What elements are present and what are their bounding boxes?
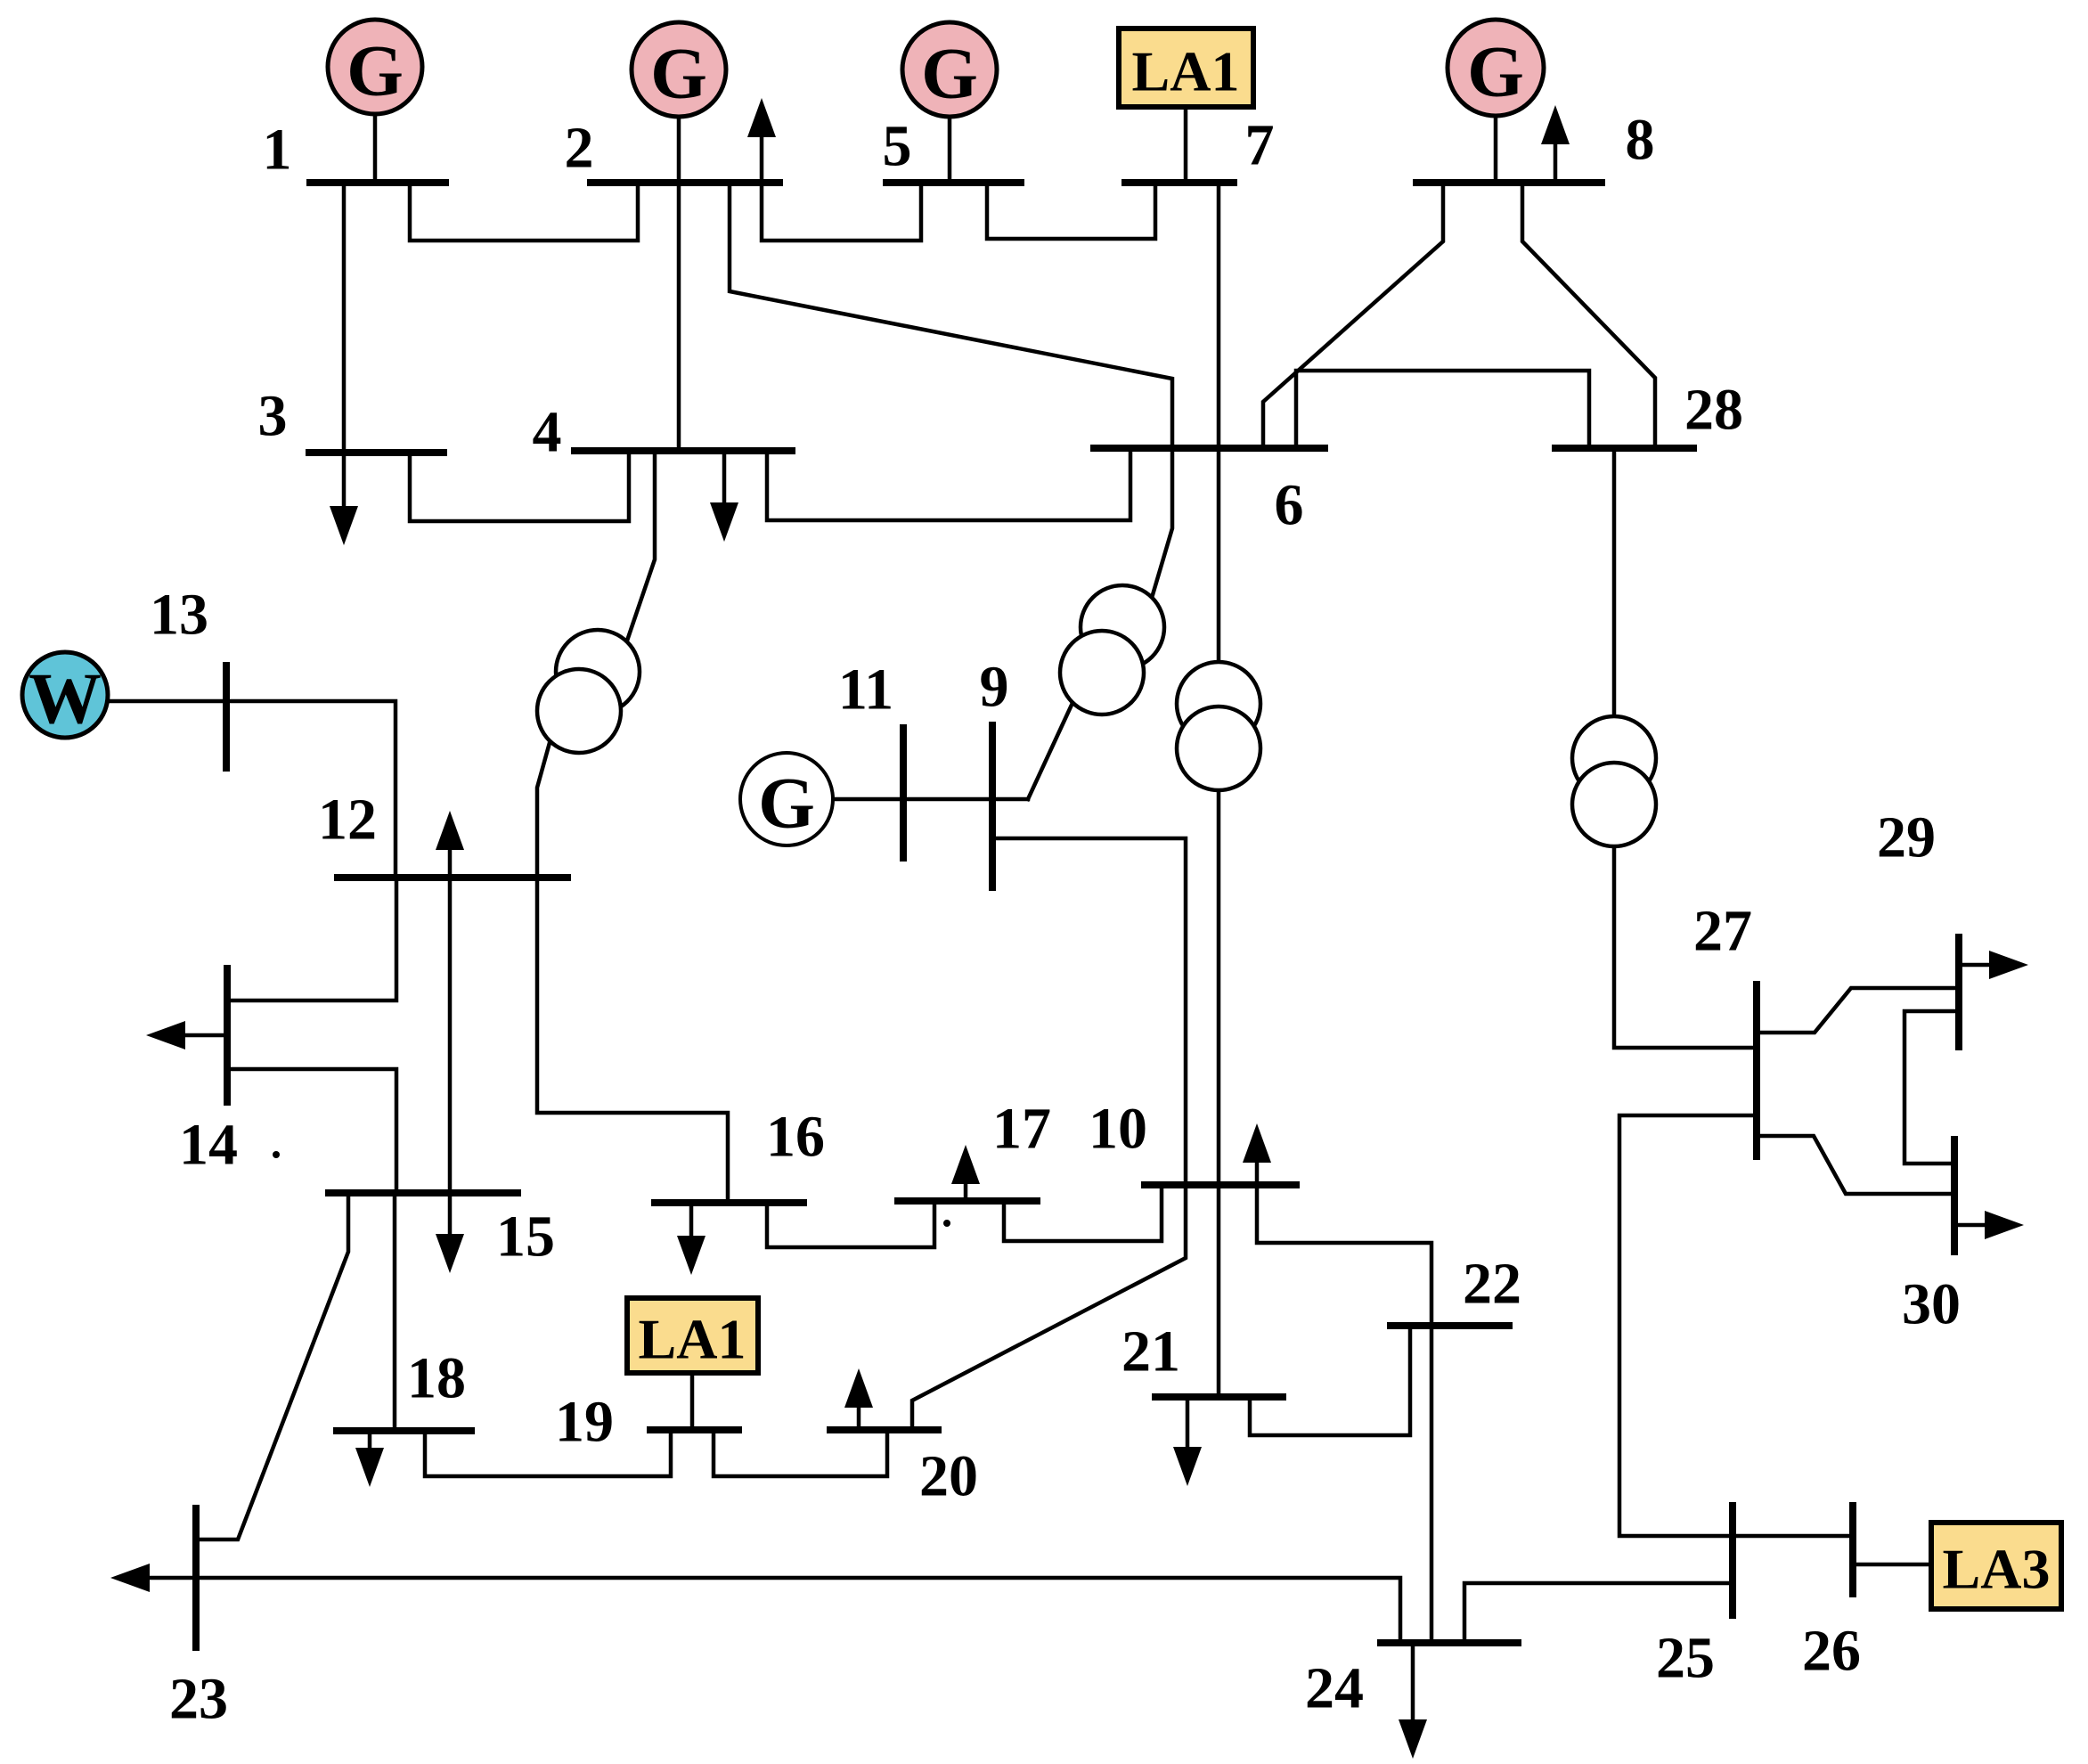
bus 23 [192,1508,200,1647]
wire generator lead G11-bus11-bus9 [832,797,1028,802]
load arrowhead bus16 down [677,1236,706,1275]
svg-text:29: 29 [1877,805,1936,870]
bus 16 [655,1199,803,1206]
wire line 14-15 [227,1069,396,1193]
wire line 6-T1b diagonal [1152,448,1172,598]
bus 17 [898,1197,1037,1205]
stray dot near bus17 [943,1220,950,1227]
wire line 4-T1 upper [626,451,655,643]
svg-text:LA1: LA1 [639,1308,746,1371]
wire line 22-24 [1430,1326,1434,1643]
wire line 9-T2 diagonal [1028,703,1073,799]
wire load line bus12-bus15 double arrow [448,849,453,1235]
svg-text:26: 26 [1802,1619,1861,1684]
wire line 26-LA3 [1853,1563,1931,1567]
svg-text:3: 3 [258,384,288,449]
load arrowhead bus8 up [1541,105,1570,144]
load arrowhead bus23 left [110,1564,150,1592]
wire connector LA1top-bus7 [1184,107,1188,183]
svg-text:11: 11 [838,657,893,723]
svg-text:G: G [758,763,815,844]
wire line 1-3 with load shaft at bus3 [342,183,347,504]
bus 3 [309,449,444,456]
wire load shaft bus4 [722,451,727,503]
load arrowhead bus14 left [146,1021,185,1049]
svg-text:10: 10 [1089,1097,1147,1162]
wire line 6-28 [1296,371,1589,448]
bus 30 [1951,1139,1958,1252]
load arrowhead bus20 up [844,1368,873,1408]
wire load shaft bus17 [964,1183,968,1201]
wire line 24-25 [1464,1583,1733,1643]
bus 15 [329,1189,518,1196]
svg-text:24: 24 [1305,1656,1364,1721]
load arrowhead bus24 down [1399,1719,1427,1759]
transformer T2 6-10 [1177,662,1260,790]
svg-text:5: 5 [883,114,912,179]
svg-text:28: 28 [1684,378,1743,443]
load arrowhead bus10 up [1243,1123,1271,1163]
svg-text:16: 16 [766,1105,825,1170]
wire line 8-28 [1522,183,1655,448]
wire generator lead G8-bus8 [1494,115,1498,183]
wire line T3-27 [1614,846,1757,1048]
bus 11 [900,728,907,858]
svg-text:22: 22 [1463,1252,1521,1317]
wire line 12-14 upper [227,878,396,1000]
svg-text:LA1: LA1 [1132,40,1240,103]
wire line 16-17 [767,1201,934,1247]
wire line 27-25 [1619,1115,1757,1536]
svg-text:6: 6 [1275,473,1304,538]
wire connector LA1mid-bus19 [690,1373,695,1430]
bus 29 [1955,937,1962,1047]
bus 13 [223,666,230,768]
svg-text:12: 12 [318,788,377,853]
wire line 1-2 [410,183,638,241]
wire line 2-5 with load shaft at bus2 [762,135,921,241]
wire load shaft bus16 [689,1203,694,1237]
bus 25 [1729,1506,1736,1615]
bus 19 [650,1426,738,1433]
wire line 18-19 [425,1430,671,1476]
svg-text:7: 7 [1245,113,1275,178]
svg-text:LA3: LA3 [1943,1538,2051,1601]
svg-text:19: 19 [555,1390,614,1455]
wire load shaft bus30 [1954,1223,1985,1228]
svg-text:G: G [1467,31,1524,112]
wire line 3-4 [410,451,629,521]
wire line 25-26 [1733,1534,1853,1539]
bus 2 [591,179,779,186]
wire line 10-20 diagonal [912,1185,1186,1430]
bus 5 [886,179,1021,186]
svg-text:W: W [29,658,102,739]
wire line 17-10 [1004,1185,1162,1241]
svg-text:27: 27 [1693,899,1752,964]
bus 20 [830,1426,938,1433]
wire load shaft bus20 [857,1406,861,1430]
svg-text:8: 8 [1626,108,1655,173]
wire line 15-18 [393,1193,397,1431]
svg-text:G: G [347,30,404,111]
svg-text:2: 2 [565,116,594,181]
wire line 10-22 [1257,1185,1431,1326]
generator G11 [740,753,833,845]
wire load shaft bus29 [1959,963,1989,968]
transformer T3 28-27 [1572,716,1656,846]
generator G8 [1448,20,1544,116]
bus 9 [989,725,996,887]
svg-text:G: G [650,33,707,114]
generator G1 [328,20,422,114]
load arrowhead bus18 down [355,1448,384,1487]
svg-text:25: 25 [1656,1626,1715,1691]
bus 8 [1416,179,1602,186]
wind generator W13 [22,652,108,739]
load arrowhead bus30 right [1985,1211,2024,1239]
wire line 9-10 [992,838,1186,1185]
svg-text:9: 9 [980,655,1009,720]
generator G2 [632,22,726,117]
generator G5 [902,22,997,117]
wire line 15-23 [196,1193,348,1539]
wire load shaft bus10 [1255,1162,1260,1185]
wire line 2-6 [730,183,1172,448]
bus 26 [1849,1506,1856,1594]
bus 27 [1753,984,1760,1156]
load arrowhead bus12 up [436,811,464,850]
bus 28 [1555,445,1693,452]
svg-text:23: 23 [169,1667,228,1732]
wire line 4-6 [767,448,1130,520]
load arrowhead bus4 down [710,502,738,542]
load arrowhead bus29 right [1989,951,2028,979]
wire load shaft bus14 [185,1033,227,1038]
bus 21 [1155,1393,1283,1401]
wire line W-13-12 [107,701,396,878]
bus 22 [1391,1322,1509,1329]
wire generator lead G1-bus1 [373,112,378,183]
svg-text:15: 15 [496,1205,555,1270]
wire line 7-6 upper segment to transformer T2 [1217,183,1221,663]
bus 10 [1145,1181,1296,1188]
svg-text:13: 13 [150,583,208,648]
bus 18 [337,1427,471,1434]
load-area box LA3 [1931,1523,2061,1609]
load-area box LA1 top [1119,29,1253,107]
load arrowhead bus17 up [951,1145,980,1184]
load arrowhead bus15 down [436,1234,464,1273]
bus 24 [1381,1639,1518,1646]
svg-text:20: 20 [919,1444,978,1509]
svg-text:18: 18 [407,1346,466,1411]
wire line 19-20 [714,1430,887,1476]
wire line 6-8 [1263,183,1443,448]
stray dot near bus14 [273,1151,280,1158]
transformer T0 6-9 [1060,585,1164,715]
svg-text:4: 4 [533,400,562,465]
wire load shaft bus8 [1554,143,1558,183]
bus 12 [338,874,567,881]
bus 6 [1094,445,1325,452]
wire line 27-30 [1757,1136,1954,1194]
wire line 23-24 long horizontal [150,1578,1400,1643]
wire line 21-22 [1250,1326,1410,1435]
svg-text:G: G [921,33,978,114]
wire line T2-10-21 lower segment [1217,790,1221,1397]
wire line 27-29 [1757,988,1959,1033]
wire line 29-30 bracket [1904,1011,1959,1164]
bus 14 [224,968,231,1102]
wire generator lead G5-bus5 [948,116,952,183]
svg-text:17: 17 [992,1097,1051,1162]
wire line 28-T3 upper [1612,448,1617,716]
svg-text:14: 14 [179,1113,238,1178]
wire load shaft bus21 [1186,1397,1190,1448]
wire load shaft bus24 [1411,1643,1415,1720]
load arrowhead bus21 down [1173,1447,1202,1486]
svg-text:30: 30 [1902,1272,1961,1337]
bus 4 [575,447,792,454]
transformer T1 4-12 [537,630,640,753]
bus 7 [1125,179,1234,186]
svg-text:1: 1 [263,118,292,183]
bus 1 [310,179,445,186]
wire load shaft bus18 [368,1431,372,1449]
wire generator lead G2-bus2 and line 2-4 [677,116,681,451]
load-area box LA1 mid [627,1298,758,1373]
wire line 5-7 [987,183,1155,239]
load arrowhead bus3 down [330,506,358,545]
load arrowhead bus2 up [747,98,776,137]
wire line T1-12-16 [537,739,728,1203]
svg-text:21: 21 [1121,1319,1180,1384]
